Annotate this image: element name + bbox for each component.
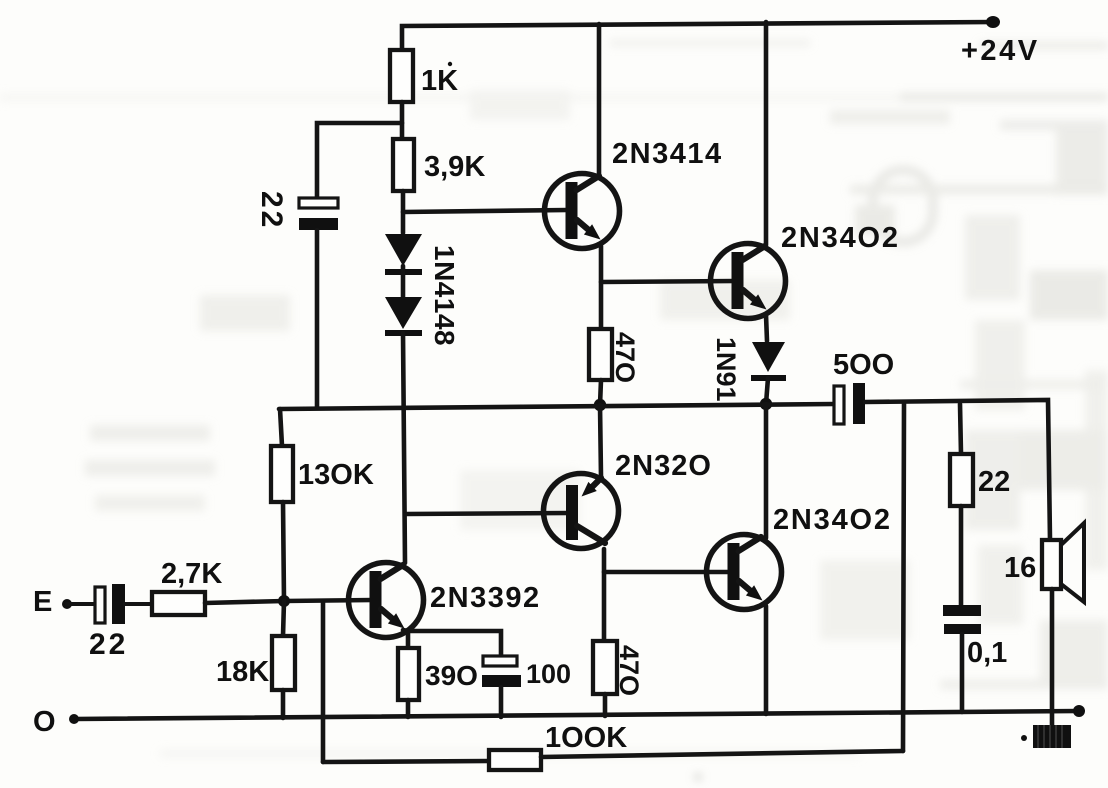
ground end dot [1073,705,1085,717]
wire 470 to mid node [600,380,601,405]
svg-text:2N34O2: 2N34O2 [773,504,892,536]
diode 1N4148 (upper) [385,234,422,272]
wire 100K to feedback tap [541,751,903,757]
svg-text:+24V: +24V [961,35,1040,67]
wire diode string to 2N320 base [406,513,570,514]
wire to 2N3402 base [604,570,732,575]
transistor 2N3414 [545,174,620,249]
svg-text:2,7K: 2,7K [161,558,222,590]
wire 2N3402 collector to mid node [764,404,769,538]
ground symbol [1021,712,1071,748]
ground line (0 rail) [74,711,1079,719]
wire diode to mid node [766,378,768,404]
svg-text:3,9K: 3,9K [424,151,485,183]
svg-text:22: 22 [89,628,128,661]
wire diodes to 2N3392 collector [403,333,405,563]
wire 2,7K to base node [205,600,373,603]
resistor 2,7K [152,592,205,615]
svg-text:1K: 1K [421,65,458,97]
node (junction dot) [594,399,606,411]
wire 2N3392 emitter node [403,630,501,656]
transistor 2N3392 [349,563,424,638]
svg-text:1OOK: 1OOK [545,722,627,754]
svg-text:22: 22 [255,191,288,230]
wire speaker to ground line [1050,589,1055,712]
rail end dot [986,16,1000,28]
node (junction dot) [760,398,772,410]
wire 470 to ground line [603,694,608,716]
svg-text:1N4148: 1N4148 [429,245,460,346]
wire feedback bottom [323,761,489,762]
wire feedback tap down [903,404,904,751]
wire feedback vertical (base side) [321,602,326,762]
mid wire (right of cap) [865,400,1050,540]
wire 2N320 bottom down [602,549,607,641]
resistor 390 [398,648,419,700]
resistor 470 (upper) [589,329,612,380]
svg-text:0,1: 0,1 [967,637,1007,669]
resistor 470 (lower) [593,641,617,694]
wire cap 22 to mid node [315,230,320,408]
capacitor 500 [834,383,865,424]
wire 2N3414 emitter down [599,246,604,329]
capacitor 0,1 [943,605,981,634]
wire 2N3402 collector to rail [764,22,769,245]
svg-text:22: 22 [978,466,1010,498]
transistor 2N3402 (lower) [707,535,782,610]
resistor 130K [280,409,282,446]
node (junction dot) [278,595,290,607]
wire between diodes [401,266,406,297]
svg-text:2N3414: 2N3414 [612,138,723,170]
svg-text:13OK: 13OK [298,459,374,491]
svg-text:5OO: 5OO [833,349,894,381]
transistor 2N320 [544,474,619,549]
wire emitter to 2N3402 base [601,281,736,282]
wire 130K to base node [283,502,284,601]
wire 2N3402 emitter to diode [766,315,767,341]
mid wire (output node, left part) [279,404,834,409]
wire 2N3402 emitter to ground line [764,606,769,714]
svg-text:2N3392: 2N3392 [430,582,541,614]
svg-text:100: 100 [526,659,571,689]
wire 1K to 3.9K [400,102,405,139]
wire E to cap [67,602,95,606]
speaker 16 [1042,523,1084,602]
resistor 100K [489,750,541,770]
transistor 2N3402 (upper) [711,244,786,319]
resistor 3.9K [393,139,414,191]
wire 2N3414 collector to rail [597,24,602,177]
capacitor 22 (bootstrap) [299,198,338,230]
wire 18K to ground line [281,690,286,718]
diode 1N91 [751,342,786,378]
svg-text:16: 16 [1004,552,1036,584]
svg-text:39O: 39O [425,660,478,691]
wire 3.9K to diodes [401,191,406,233]
wire 390 to ground line [406,700,411,717]
resistor 1K [390,50,413,102]
diode 1N4148 (lower) [385,297,422,333]
capacitor 22 (input) [95,584,125,624]
svg-text:47O: 47O [614,645,644,696]
svg-text:1N91: 1N91 [711,337,741,402]
svg-text:E: E [33,586,52,618]
svg-text:2N32O: 2N32O [615,450,712,482]
wire cap to 2,7K [125,602,152,606]
svg-text:O: O [33,706,56,738]
+24V rail wire [402,22,996,50]
wire 22 to 0,1 cap [959,506,964,605]
capacitor 100 [482,656,521,687]
wire node to 2N3414 base [403,210,568,212]
resistor 18K [283,601,284,636]
wire 2N320 top to mid node [600,405,601,477]
svg-text:2N34O2: 2N34O2 [781,222,900,254]
svg-text:47O: 47O [610,332,640,383]
resistor 22 (output) [960,404,961,454]
wire branch to 22uF cap [317,123,402,197]
svg-text:18K: 18K [216,656,269,688]
wire 0,1 to ground line [960,634,965,712]
wire 100 to ground line [499,687,504,717]
